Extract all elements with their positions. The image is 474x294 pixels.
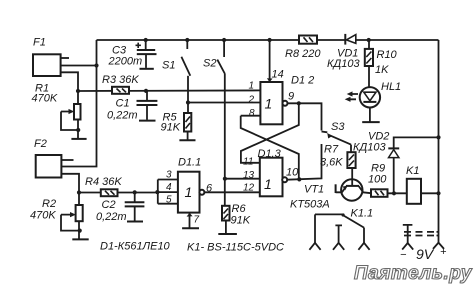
svg-text:7: 7 (194, 215, 200, 226)
svg-text:9: 9 (288, 91, 294, 103)
svg-text:100: 100 (368, 174, 387, 186)
svg-text:R2: R2 (42, 198, 56, 210)
label D1 chip type (100, 241, 171, 253)
switch S1 (162, 38, 190, 113)
svg-text:KT503A: KT503A (290, 199, 330, 211)
ground under R2 (72, 238, 88, 240)
svg-text:K1- BS-115C-5VDC: K1- BS-115C-5VDC (187, 242, 284, 254)
switch S2 (203, 38, 227, 206)
svg-text:D1 2: D1 2 (291, 75, 314, 87)
wire RS cross coupling (241, 103, 299, 179)
wire D1.3 output node 10 (287, 144, 321, 181)
svg-text:91K: 91K (231, 215, 251, 227)
svg-text:F1: F1 (33, 37, 46, 49)
watermark (354, 263, 473, 284)
ground under R6 (218, 233, 237, 235)
svg-text:HL1: HL1 (381, 81, 401, 93)
svg-text:470K: 470K (30, 210, 56, 222)
ground under HL1 (362, 121, 380, 123)
resistor R3 36K (102, 74, 139, 94)
svg-text:5: 5 (166, 195, 172, 206)
svg-text:Паятель.ру: Паятель.ру (354, 263, 473, 284)
wire F1 to bus (61, 63, 99, 67)
svg-text:КД103: КД103 (353, 142, 386, 154)
svg-text:S2: S2 (203, 58, 216, 70)
svg-text:10: 10 (286, 167, 299, 179)
ground under R5 (179, 139, 195, 141)
svg-text:S3: S3 (331, 121, 345, 133)
diode VD2 КД103 (353, 131, 441, 194)
svg-text:1K: 1K (375, 64, 389, 76)
resistor R9 100 (368, 163, 388, 197)
svg-text:3,6K: 3,6K (320, 157, 343, 169)
resistor R4 36K (85, 176, 122, 196)
resistor R5 91K (161, 112, 192, 141)
svg-text:8: 8 (249, 108, 255, 119)
wire top +9V rail (97, 39, 439, 41)
potentiometer R2 470K (30, 193, 83, 240)
svg-text:F2: F2 (34, 138, 47, 150)
LED HL1 (345, 81, 401, 122)
gate D1.2 (248, 75, 315, 125)
wire D1.2 output node 9 (288, 101, 322, 130)
wire pin 13 row (225, 178, 260, 180)
switch S3 (322, 121, 352, 152)
gate D1.1 (158, 157, 213, 213)
svg-text:1: 1 (265, 96, 273, 112)
svg-text:R3 36K: R3 36K (102, 74, 139, 86)
svg-text:0,22m: 0,22m (96, 211, 127, 223)
svg-text:1: 1 (249, 81, 255, 92)
svg-text:R7: R7 (324, 144, 339, 156)
svg-text:0,22m: 0,22m (107, 110, 138, 122)
svg-text:1: 1 (185, 184, 193, 200)
svg-text:R8 220: R8 220 (285, 48, 321, 60)
svg-text:D1.1: D1.1 (178, 157, 201, 169)
svg-text:12: 12 (243, 183, 255, 194)
capacitor C2 0,22m (96, 192, 144, 223)
wire F1 lower lead (61, 72, 78, 91)
svg-text:КД103: КД103 (327, 58, 360, 70)
wire F2 lower lead (61, 174, 79, 193)
battery 9V (400, 225, 447, 262)
resistor R6 91K (222, 203, 251, 234)
relay contacts K1.1 (309, 208, 373, 250)
svg-text:R4 36K: R4 36K (85, 176, 122, 188)
svg-text:D1-К561ЛЕ10: D1-К561ЛЕ10 (100, 241, 171, 253)
resistor R10 1K (365, 38, 398, 87)
svg-text:1: 1 (264, 176, 272, 192)
F2 sensor (34, 138, 74, 178)
wire pin 14 supply (267, 38, 284, 82)
wire node line pin2 row (188, 102, 260, 104)
ground tick under C2 (127, 221, 143, 223)
potentiometer R1 470K (32, 83, 81, 139)
svg-text:91K: 91K (161, 122, 181, 134)
ground under R1 (71, 138, 86, 140)
wire D1.1 output to pin 12 (204, 191, 259, 193)
transistor VT1 KT503A (290, 179, 371, 210)
gate D1.3 (243, 148, 299, 196)
svg-text:K1.1: K1.1 (351, 208, 374, 220)
svg-text:3: 3 (166, 170, 172, 181)
wire left vertical bus to F2 (61, 40, 96, 167)
svg-text:VT1: VT1 (304, 184, 324, 196)
resistor R7 3,6K (320, 144, 356, 186)
svg-text:11: 11 (243, 157, 253, 168)
F1 sensor (33, 37, 69, 77)
diode VD1 КД103 (327, 34, 360, 70)
ground tick under C1 (139, 120, 156, 122)
svg-text:C2: C2 (102, 199, 116, 211)
svg-text:470K: 470K (32, 93, 58, 105)
svg-text:−: − (400, 249, 407, 261)
gate D1.1 pin 7 ground (182, 213, 199, 229)
svg-text:C1: C1 (116, 98, 130, 110)
svg-text:S1: S1 (162, 60, 175, 72)
wire node line R4 row (77, 190, 160, 195)
svg-text:9V: 9V (416, 246, 435, 262)
wire right rail vertical (438, 40, 440, 243)
svg-text:R6: R6 (232, 203, 247, 215)
relay K1 (406, 165, 421, 204)
svg-text:R10: R10 (377, 49, 398, 61)
label K1 relay type (187, 242, 284, 254)
svg-text:2200m: 2200m (108, 56, 143, 68)
wire R9 to K1 (388, 191, 407, 195)
svg-text:K1: K1 (406, 165, 419, 177)
wire node line R3 row (76, 89, 261, 93)
capacitor C1 0,22m (107, 91, 157, 122)
wire K1 to right rail (421, 191, 441, 195)
svg-text:14: 14 (272, 69, 284, 81)
svg-text:2: 2 (248, 95, 255, 106)
resistor R8 220 (285, 36, 321, 61)
ground tick under C3 (140, 68, 154, 70)
svg-text:4: 4 (166, 182, 172, 193)
capacitor C3 2200m (108, 38, 157, 68)
